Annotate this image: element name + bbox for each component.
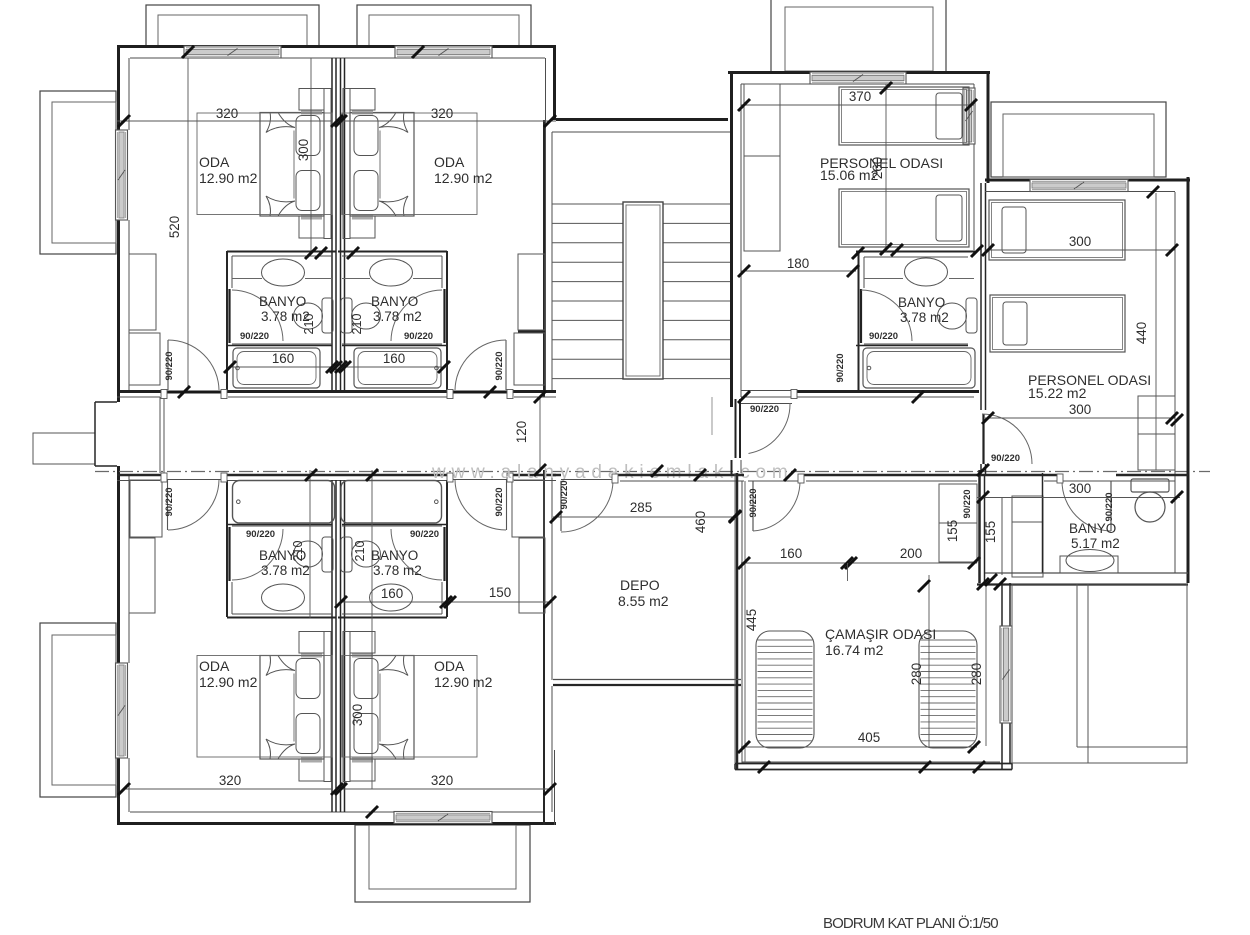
- svg-text:440: 440: [1134, 322, 1149, 344]
- cabinet ÇAMAŞIR northeast: [939, 484, 977, 562]
- svg-text:16.74 m2: 16.74 m2: [825, 642, 884, 658]
- window: 15.22 north: [1030, 180, 1128, 192]
- closet top-right unit entry: [514, 254, 545, 385]
- svg-text:200: 200: [900, 546, 922, 561]
- wall: top block south (corridor north): [117, 392, 556, 398]
- dim 320 top-left ODA: [117, 106, 332, 127]
- door: top-right unit entry 90/220: [447, 340, 513, 399]
- door: top-left unit entry 90/220: [161, 340, 227, 399]
- dim 155 pair: [945, 520, 998, 543]
- banyo walls bottom-right unit: [338, 480, 447, 618]
- svg-text:300: 300: [1069, 481, 1091, 496]
- wall: bottom block north (corridor south): [117, 475, 556, 481]
- svg-text:90/220: 90/220: [1104, 492, 1115, 521]
- exterior balcony above PERSONEL ODASI 15.22: [991, 102, 1166, 177]
- toilet top-right banyo: [341, 298, 381, 333]
- hall axis stub line: [711, 397, 713, 435]
- label PERSONEL ODASI 15.22: [1028, 372, 1151, 401]
- balcony below bottom-right ODA: [355, 825, 530, 902]
- label ÇAMAŞIR ODASI: [825, 626, 936, 658]
- svg-text:BANYO: BANYO: [259, 294, 306, 309]
- corridor west bump walls: [95, 397, 164, 473]
- door: 15.22 entry 90/220: [982, 414, 1032, 464]
- dim 320 bottom-right ODA: [331, 773, 556, 818]
- svg-text:160: 160: [780, 546, 802, 561]
- wall: ÇAMAŞIR east: [980, 470, 1011, 770]
- toilet right-wing banyo: [938, 298, 978, 333]
- svg-text:90/220: 90/220: [750, 404, 779, 415]
- svg-text:3.78 m2: 3.78 m2: [900, 310, 949, 325]
- svg-text:300: 300: [1069, 234, 1091, 249]
- bed1 15.06: [839, 87, 969, 145]
- banyo walls top-right unit: [338, 251, 447, 390]
- misc slashes walls: [178, 247, 1006, 773]
- sink BANYO 5.17: [1060, 550, 1118, 574]
- svg-text:90/220: 90/220: [748, 488, 759, 517]
- washer 1 ÇAMAŞIR: [756, 631, 814, 748]
- svg-text:5.17 m2: 5.17 m2: [1071, 536, 1120, 551]
- wall: bottom block south outer: [117, 812, 556, 824]
- door: bottom-right unit entry 90/220: [447, 473, 513, 530]
- wall: stair block north: [552, 120, 733, 133]
- bed1 15.22: [989, 200, 1125, 260]
- label BANYO top-right: [371, 294, 422, 324]
- label BANYO 3.78 right wing: [898, 295, 949, 325]
- party wall between bottom ODA rooms: [332, 480, 345, 812]
- wall: 15.06/stair west: [732, 71, 742, 476]
- dim 520 left: [167, 46, 194, 390]
- svg-text:12.90 m2: 12.90 m2: [434, 170, 493, 186]
- svg-text:BANYO: BANYO: [259, 548, 306, 563]
- door: ÇAMAŞIR 90/220: [753, 474, 804, 531]
- svg-text:320: 320: [431, 773, 453, 788]
- wall: BANYO 5.17 west: [1042, 473, 1044, 573]
- dim 180 15.06: [738, 244, 983, 277]
- dim 445 camasir: [744, 481, 759, 763]
- svg-text:370: 370: [849, 89, 871, 104]
- dim 300 bottom party: [310, 470, 372, 789]
- dim 405 camasir: [738, 730, 980, 753]
- svg-text:90/220: 90/220: [410, 529, 439, 540]
- svg-text:90/220: 90/220: [164, 351, 175, 380]
- svg-text:150: 150: [489, 585, 511, 600]
- wall: left block west outer: [119, 45, 130, 825]
- dim 300 15.22 top: [982, 234, 1178, 256]
- balcony left of top ODA: [40, 91, 116, 254]
- svg-text:15.06 m2: 15.06 m2: [820, 167, 879, 183]
- svg-text:285: 285: [630, 500, 652, 515]
- svg-text:280: 280: [969, 663, 984, 685]
- svg-text:120: 120: [514, 421, 529, 443]
- bed2 15.06: [839, 189, 969, 247]
- svg-text:ODA: ODA: [199, 154, 230, 170]
- svg-text:3.78 m2: 3.78 m2: [373, 563, 422, 578]
- label ODA top-left: [199, 154, 258, 186]
- svg-text:90/220: 90/220: [962, 489, 973, 518]
- label BANYO bottom-left: [259, 548, 310, 578]
- svg-text:445: 445: [744, 609, 759, 631]
- bathtub bottom-left unit: [233, 481, 335, 524]
- bathtub right-wing banyo: [863, 348, 975, 388]
- dim 160 150 bottom: [335, 585, 556, 608]
- svg-text:3.78 m2: 3.78 m2: [373, 309, 422, 324]
- svg-text:160: 160: [383, 351, 405, 366]
- wall: 15.06 east outer: [974, 71, 988, 475]
- washer 2 ÇAMAŞIR: [919, 631, 977, 748]
- wall: ÇAMAŞIR south: [735, 762, 1012, 770]
- dim 440 15.22: [1134, 186, 1183, 470]
- svg-text:160: 160: [272, 351, 294, 366]
- bed bottom-right ODA: [343, 632, 414, 782]
- wall: 15.22 east outer: [1175, 177, 1188, 583]
- svg-text:405: 405: [858, 730, 880, 745]
- dim 160 top tubs: [224, 351, 450, 373]
- svg-text:12.90 m2: 12.90 m2: [434, 674, 493, 690]
- label ODA bottom-left: [199, 658, 258, 690]
- svg-text:155: 155: [945, 520, 960, 542]
- room outline bottom-left ODA: [197, 656, 332, 758]
- sink bottom-right banyo: [370, 584, 413, 611]
- banyo walls top-left unit: [227, 251, 336, 390]
- bed2 15.22: [990, 295, 1125, 352]
- faint watermark: [431, 462, 794, 483]
- balcony left of bottom ODA: [40, 623, 116, 797]
- dim 320 bottom-left ODA: [118, 773, 332, 795]
- dim 210 top toilets: [302, 314, 364, 335]
- svg-text:320: 320: [219, 773, 241, 788]
- svg-text:300: 300: [1069, 402, 1091, 417]
- svg-text:DEPO: DEPO: [620, 577, 660, 593]
- toilet bottom-right banyo: [341, 537, 381, 572]
- closet bottom-right unit entry: [512, 480, 545, 613]
- svg-text:BANYO: BANYO: [371, 548, 418, 563]
- svg-text:8.55 m2: 8.55 m2: [618, 593, 669, 609]
- window: bottom ODA right: [394, 812, 492, 824]
- svg-text:160: 160: [381, 586, 403, 601]
- room outline top-right ODA: [342, 113, 477, 215]
- svg-text:ODA: ODA: [434, 154, 465, 170]
- svg-text:460: 460: [693, 511, 708, 533]
- dim 300 top party: [296, 46, 424, 259]
- svg-text:3.78 m2: 3.78 m2: [261, 309, 310, 324]
- svg-text:210: 210: [350, 314, 364, 335]
- label ODA bottom-right: [434, 658, 493, 690]
- svg-text:BODRUM KAT PLANI Ö:1/50: BODRUM KAT PLANI Ö:1/50: [823, 914, 998, 930]
- door: bottom-left unit entry 90/220: [161, 473, 227, 530]
- label PERSONEL ODASI 15.06: [820, 155, 943, 183]
- svg-text:BANYO: BANYO: [371, 294, 418, 309]
- svg-text:90/220: 90/220: [404, 331, 433, 342]
- shaft next to ÇAMAŞIR wall: [1002, 496, 1043, 577]
- svg-text:300: 300: [350, 704, 365, 726]
- sink right-wing banyo: [864, 258, 974, 286]
- wall: 15.22 north outer: [985, 180, 1190, 192]
- wall: left block east (shared with stair block): [544, 45, 555, 825]
- title BODRUM KAT PLANI: [823, 914, 998, 932]
- staircase with central newel: [552, 202, 733, 379]
- bed top-left ODA: [260, 89, 331, 239]
- door size labels 90/220: [164, 331, 1115, 540]
- door: top-right banyo 90/220: [391, 289, 445, 343]
- closet top-left unit entry: [129, 254, 160, 385]
- sink bottom-left banyo: [262, 584, 305, 611]
- dim 460 west camasir: [693, 473, 741, 763]
- wall: BANYO 5.17 south: [977, 573, 1188, 585]
- svg-text:12.90 m2: 12.90 m2: [199, 170, 258, 186]
- bathtub/closet below top-left banyo: [233, 348, 320, 388]
- room outline top-left ODA: [197, 113, 332, 215]
- banyo walls bottom-left unit: [227, 480, 336, 618]
- small exterior box left of corridor: [33, 433, 95, 464]
- window: left wall top ODA: [116, 130, 128, 220]
- svg-text:90/220: 90/220: [164, 487, 175, 516]
- door: 15.06 entry 90/220: [736, 390, 798, 459]
- dim 160 200 camasir: [738, 546, 980, 581]
- svg-text:12.90 m2: 12.90 m2: [199, 674, 258, 690]
- dim 120 corridor: [514, 397, 540, 470]
- svg-text:ÇAMAŞIR ODASI: ÇAMAŞIR ODASI: [825, 626, 936, 642]
- svg-text:90/220: 90/220: [559, 480, 570, 509]
- wardrobe 15.22 southeast: [1138, 396, 1175, 470]
- svg-text:90/220: 90/220: [991, 453, 1020, 464]
- svg-text:3.78 m2: 3.78 m2: [261, 563, 310, 578]
- bed bottom-left ODA: [260, 632, 331, 782]
- bathtub bottom-right unit: [341, 481, 442, 524]
- svg-text:BANYO: BANYO: [1069, 521, 1116, 536]
- sink top-right banyo: [342, 259, 442, 286]
- dim 300 banyo 5.17: [977, 481, 1183, 503]
- dim 280 washers: [909, 575, 986, 748]
- svg-text:90/220: 90/220: [246, 529, 275, 540]
- corridor axis dash-dot line: [95, 471, 1210, 473]
- svg-text:520: 520: [167, 216, 182, 238]
- bed top-right ODA: [343, 89, 414, 239]
- svg-text:90/220: 90/220: [835, 353, 846, 382]
- dim 260 15.06: [870, 82, 892, 255]
- dim 285 corridor stairs: [550, 500, 741, 523]
- wall: south of corridor right part: [553, 475, 1188, 481]
- door: bottom-left banyo 90/220: [230, 527, 284, 581]
- svg-text:BANYO: BANYO: [898, 295, 945, 310]
- door: top-left banyo 90/220: [230, 289, 284, 343]
- toilet BANYO 5.17: [1131, 479, 1169, 522]
- svg-text:180: 180: [787, 256, 809, 271]
- exterior balcony outline top-middle: [357, 5, 531, 46]
- svg-text:300: 300: [296, 139, 311, 161]
- wall: top block north outer: [117, 47, 556, 59]
- label BANYO bottom-right: [371, 548, 422, 578]
- svg-text:15.22 m2: 15.22 m2: [1028, 385, 1087, 401]
- window: left wall bottom ODA: [116, 663, 128, 758]
- door: DEPO 90/220: [561, 474, 618, 532]
- svg-text:210: 210: [353, 541, 367, 562]
- label BANYO top-left: [259, 294, 310, 324]
- party wall between top ODA rooms: [332, 58, 345, 390]
- terrace southeast outline: [1012, 584, 1187, 763]
- door: BANYO 5.17 90/220: [1057, 474, 1111, 531]
- dim 370 15.06: [738, 89, 977, 111]
- toilet bottom-left banyo: [294, 537, 334, 572]
- svg-text:280: 280: [909, 663, 924, 685]
- svg-text:320: 320: [431, 106, 453, 121]
- svg-text:90/220: 90/220: [494, 351, 505, 380]
- dim 300 15.22 bottom: [982, 402, 1178, 424]
- dim 210 bottom toilets: [291, 541, 367, 562]
- toilet top-left banyo: [294, 298, 334, 333]
- svg-text:ODA: ODA: [434, 658, 465, 674]
- wall: DEPO east / ÇAMAŞIR west: [737, 473, 742, 770]
- svg-text:155: 155: [983, 521, 998, 543]
- svg-text:90/220: 90/220: [869, 331, 898, 342]
- door right-wing banyo 90/220: [861, 289, 912, 343]
- label DEPO: [618, 577, 669, 609]
- window: top ODA left: [184, 46, 281, 58]
- window: 15.06 east: [963, 88, 975, 144]
- window: top ODA right: [395, 46, 492, 58]
- wall: hall south / banyo378 top area: [794, 392, 979, 398]
- window: 15.06 north: [810, 72, 906, 84]
- dim 320 top-right ODA: [331, 106, 556, 127]
- exterior balcony top-right above PERSONEL ODASI 15.06: [771, 0, 946, 71]
- closet bottom-left unit entry: [129, 480, 162, 613]
- window: ÇAMAŞIR east: [1000, 626, 1012, 723]
- sink top-left banyo: [232, 259, 332, 286]
- svg-text:ODA: ODA: [199, 658, 230, 674]
- banyo 3.78 right-wing walls: [856, 251, 975, 390]
- wall: DEPO south: [553, 680, 741, 686]
- wall: 15.06 north outer: [728, 73, 990, 85]
- svg-text:90/220: 90/220: [240, 331, 269, 342]
- label BANYO 5.17: [1069, 521, 1120, 551]
- wardrobe 15.06 west wall: [744, 84, 780, 251]
- svg-text:90/220: 90/220: [494, 487, 505, 516]
- bathtub/closet below top-right banyo: [354, 348, 441, 388]
- exterior balcony outline top-left: [146, 5, 319, 46]
- room outline bottom-right ODA: [342, 656, 477, 758]
- label ODA top-right: [434, 154, 493, 186]
- door: bottom-right banyo 90/220: [391, 527, 445, 581]
- svg-text:320: 320: [216, 106, 238, 121]
